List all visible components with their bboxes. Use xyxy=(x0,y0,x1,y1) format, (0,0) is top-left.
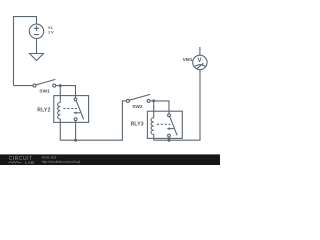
relay RLY2 arrow xyxy=(75,112,80,114)
svg-text:http://circuitlab.com/cs3uq4: http://circuitlab.com/cs3uq4 xyxy=(42,160,81,164)
wire junction to RLY2 coil branch xyxy=(59,86,61,103)
junction dot SW2/RLY3 xyxy=(152,99,155,102)
wire junction to RLY2 contact branch xyxy=(60,86,75,98)
relay RLY3 lever xyxy=(170,116,177,135)
relay RLY2 bottom contact wire xyxy=(75,121,77,141)
switch SW1 xyxy=(33,79,56,87)
CircuitLab logo resistor zigzag xyxy=(8,161,22,163)
svg-text:V: V xyxy=(198,58,202,64)
wire SW2 to junction xyxy=(150,100,154,102)
wire junction to RLY3 contact branch xyxy=(154,101,169,114)
relay RLY3 contacts xyxy=(168,114,171,117)
switch SW2 xyxy=(126,94,150,102)
svg-text:RLY2: RLY2 xyxy=(37,108,50,114)
wire junction to RLY3 coil branch xyxy=(153,101,155,118)
svg-text:And1 and: And1 and xyxy=(42,156,57,160)
wire left to SW1 xyxy=(14,85,34,87)
junction dot RLY2 bottom xyxy=(74,139,77,142)
relay RLY2 coil xyxy=(58,102,61,119)
svg-text:SW2: SW2 xyxy=(132,104,143,110)
junction dot RLY3 bottom xyxy=(168,139,171,142)
relay RLY3 dashed actuation link xyxy=(157,123,171,125)
wire RLY2 bottom to SW2 xyxy=(60,101,126,140)
svg-text:LAB: LAB xyxy=(25,160,35,165)
relay RLY3 coil xyxy=(151,118,154,135)
svg-text:V1: V1 xyxy=(48,26,53,30)
wire top-left from V1 xyxy=(14,17,37,86)
relay RLY2 lever xyxy=(76,101,84,120)
relay RLY3 box xyxy=(147,111,182,138)
relay RLY2 box xyxy=(54,96,89,123)
relay RLY2 contacts xyxy=(74,98,77,101)
relay RLY2 coil bottom wire xyxy=(59,119,61,140)
relay RLY3 arrow xyxy=(169,128,174,130)
wire SW1 to junction xyxy=(56,85,61,87)
svg-text:RLY3: RLY3 xyxy=(131,121,144,127)
voltage source V1 xyxy=(29,24,43,53)
relay RLY2 dashed actuation link xyxy=(63,108,77,110)
ground xyxy=(30,54,44,61)
junction dot SW1/RLY2 xyxy=(59,84,62,87)
watermark bar xyxy=(0,154,220,165)
svg-text:1 V: 1 V xyxy=(48,30,54,34)
voltmeter VM1 xyxy=(193,47,207,70)
wire RLY3 bottom to VM1 xyxy=(154,70,200,141)
relay RLY3 bottom contact wire xyxy=(168,137,170,140)
svg-text:VM1: VM1 xyxy=(183,57,193,63)
svg-text:SW1: SW1 xyxy=(39,89,50,95)
relay RLY3 coil bottom wire xyxy=(153,134,155,140)
